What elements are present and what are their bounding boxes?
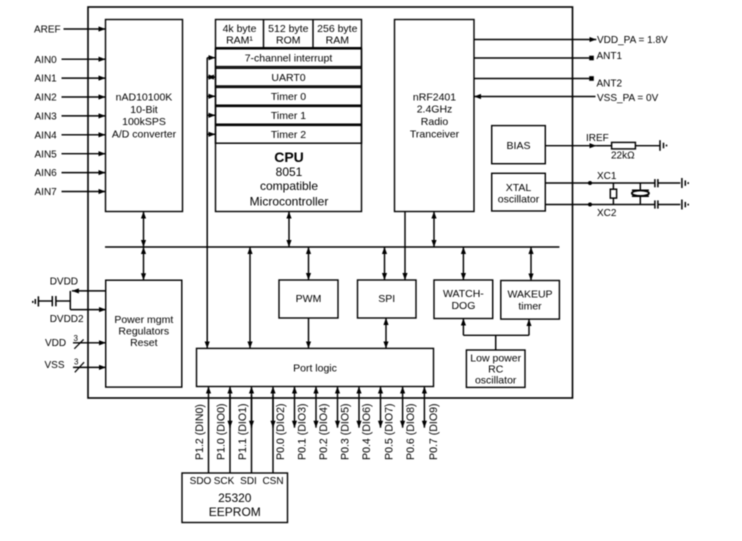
svg-text:SDO: SDO — [190, 476, 212, 487]
wire capacitor to ground — [39, 300, 52, 302]
wire DVDD/DVDD2 vertical joint — [69, 291, 71, 310]
RAM/ROM divider 1 — [263, 20, 265, 48]
svg-text:WAKEUP: WAKEUP — [507, 289, 552, 301]
svg-text:P0.0 (DIO2): P0.0 (DIO2) — [275, 403, 287, 460]
svg-text:Radio: Radio — [421, 116, 449, 128]
wire resistor to ground — [635, 145, 659, 147]
svg-text:DVDD2: DVDD2 — [50, 314, 84, 325]
row Timer 2 box — [216, 125, 362, 143]
wire XC1 from XTAL — [545, 182, 654, 184]
XTAL oscillator block — [492, 173, 546, 211]
ground GND-DVDD (facing left) — [33, 296, 39, 306]
CPU block outline — [216, 20, 362, 212]
nRF2401 radio transceiver block — [395, 20, 475, 212]
row Timer 1 box — [216, 106, 362, 124]
wire VDD in — [73, 342, 106, 344]
WATCH-DOG block — [434, 280, 493, 319]
wire RC oscillator stem — [495, 335, 497, 350]
EEPROM 25320 block — [182, 473, 288, 523]
svg-text:P1.1 (DIO1): P1.1 (DIO1) — [237, 403, 249, 460]
wire SPI to Port logic (bidirectional) — [385, 318, 387, 348]
wire ADC to bus (bidirectional) — [143, 212, 145, 248]
svg-text:Timer 0: Timer 0 — [271, 91, 306, 103]
wire RC oscillator to WATCH-DOG — [462, 319, 464, 336]
svg-text:XC2: XC2 — [597, 208, 617, 219]
svg-text:ANT1: ANT1 — [597, 51, 623, 62]
junction dot XC2 — [588, 203, 592, 207]
VDD bus-width slash — [74, 339, 83, 348]
port pin P0.0 down arrow — [272, 395, 274, 428]
svg-text:AIN1: AIN1 — [35, 74, 58, 85]
port pin P1.0 down arrow — [229, 395, 231, 428]
svg-text:AIN7: AIN7 — [35, 187, 58, 198]
RAM box text — [223, 23, 257, 46]
svg-text:AREF: AREF — [34, 25, 61, 36]
wire bus to PWM (bidirectional) — [308, 247, 310, 280]
svg-text:10-Bit: 10-Bit — [130, 104, 158, 116]
wire RC oscillator to WAKEUP timer — [528, 319, 530, 335]
wire bus to WATCH-DOG (bidirectional) — [462, 247, 464, 280]
svg-text:SCK: SCK — [214, 476, 235, 487]
stub into Timer 1 row — [207, 114, 215, 116]
svg-text:BIAS: BIAS — [507, 140, 531, 152]
Low power RC oscillator block text — [470, 353, 521, 387]
ground GND-XC1 (facing right) — [682, 178, 688, 188]
port pin P0.6 wire — [402, 387, 404, 428]
junction dot XC1 — [588, 181, 592, 185]
row 7-channel interrupt box — [216, 49, 362, 67]
wire VDD_PA out of nRF2401 — [474, 39, 596, 41]
wire AIN5 into ADC — [62, 153, 106, 155]
stub into Timer 0 row — [207, 95, 215, 97]
svg-text:PWM: PWM — [296, 293, 322, 305]
svg-text:UART0: UART0 — [271, 72, 305, 84]
svg-text:VDD_PA = 1.8V: VDD_PA = 1.8V — [597, 35, 668, 46]
port pin P1.2 wire to EEPROM SDO — [208, 387, 210, 474]
svg-text:IREF: IREF — [586, 133, 609, 144]
wire AIN2 into ADC — [62, 96, 106, 98]
wire XC2 cap to ground — [658, 204, 680, 206]
wire RC oscillator horizontal joint — [463, 334, 529, 336]
svg-text:P1.2 (DIN0): P1.2 (DIN0) — [194, 404, 206, 460]
port pin P1.1 down arrow — [251, 395, 253, 428]
ADC block text — [112, 92, 177, 141]
svg-text:P0.6 (DIO8): P0.6 (DIO8) — [405, 403, 417, 460]
outer system boundary box — [88, 7, 573, 398]
svg-text:RAM¹: RAM¹ — [226, 35, 253, 47]
svg-text:DVDD: DVDD — [50, 277, 78, 288]
port pin P0.3 wire — [337, 387, 339, 428]
svg-text:SDI: SDI — [240, 476, 257, 487]
port pin P0.2 wire — [315, 387, 317, 428]
svg-text:Power mgmt: Power mgmt — [114, 314, 173, 326]
svg-text:XC1: XC1 — [597, 171, 617, 182]
svg-text:100kSPS: 100kSPS — [122, 116, 166, 128]
svg-text:VSS: VSS — [45, 360, 65, 371]
wire bus to Power mgmt (bidirectional) — [143, 247, 145, 280]
resistor R-XTAL between XC1 and XC2 — [610, 183, 616, 205]
svg-text:timer: timer — [518, 301, 542, 313]
svg-text:A/D converter: A/D converter — [112, 128, 177, 140]
wire DVDD out — [72, 290, 106, 292]
svg-text:Timer 1: Timer 1 — [271, 110, 306, 122]
ANT1 pad square — [589, 56, 594, 61]
RAM/ROM divider 2 — [312, 20, 314, 48]
WAKEUP timer block — [501, 281, 560, 320]
svg-text:ROM: ROM — [276, 35, 301, 47]
ANT2 pad square — [589, 76, 594, 81]
wire AIN1 into ADC — [62, 77, 106, 79]
svg-text:WATCH-: WATCH- — [443, 288, 484, 300]
row Timer 0 box — [216, 87, 362, 105]
svg-text:7-channel interrupt: 7-channel interrupt — [245, 53, 333, 65]
wire nRF2401 to bus (bidirectional) — [433, 212, 435, 248]
wire VSS in — [73, 366, 106, 368]
EEPROM block text — [209, 491, 261, 519]
svg-text:P0.1 (DIO3): P0.1 (DIO3) — [297, 403, 309, 460]
row UART0 box — [216, 68, 362, 86]
wire XC1 cap to ground — [658, 182, 680, 184]
BIAS block — [492, 126, 546, 164]
ground GND-IREF (facing right) — [660, 140, 667, 151]
wire joint to decoupling capacitor — [56, 300, 70, 302]
svg-text:3: 3 — [74, 358, 79, 367]
port pin P0.7 wire — [423, 387, 425, 428]
svg-text:AIN5: AIN5 — [35, 149, 58, 160]
RAM/ROM header divider bottom line — [216, 47, 362, 49]
VSS bus-width slash — [75, 362, 84, 372]
svg-text:P1.0 (DIO0): P1.0 (DIO0) — [215, 403, 227, 460]
svg-text:25320: 25320 — [218, 491, 252, 505]
svg-text:22kΩ: 22kΩ — [611, 151, 635, 162]
port pin P0.1 wire — [294, 387, 296, 428]
wire ANT1 — [474, 57, 589, 59]
WATCH-DOG block text — [443, 288, 484, 312]
svg-text:DOG: DOG — [451, 300, 475, 312]
CPU block text — [250, 149, 329, 209]
capacitor C-DVDD — [52, 296, 56, 306]
svg-text:CSN: CSN — [262, 476, 283, 487]
svg-text:AIN4: AIN4 — [35, 130, 58, 141]
nRF2401 block text — [410, 92, 460, 141]
interrupt bus vertical wire down to Port logic — [206, 58, 208, 349]
wire XC2 from XTAL — [545, 204, 654, 206]
capacitor C-XC1 — [655, 179, 658, 187]
svg-text:AIN6: AIN6 — [35, 168, 58, 179]
resistor R-IREF 22k — [612, 142, 636, 149]
svg-text:Port logic: Port logic — [293, 363, 337, 375]
svg-text:P0.3 (DIO5): P0.3 (DIO5) — [340, 403, 352, 460]
Port logic block — [197, 348, 434, 386]
A/D converter block U-ADC — [106, 20, 183, 212]
wire IREF from BIAS — [545, 145, 596, 147]
svg-text:P0.7 (DIO9): P0.7 (DIO9) — [428, 403, 440, 460]
svg-text:RAM: RAM — [326, 35, 349, 47]
RAM256 box text — [317, 23, 357, 46]
wire AIN4 into ADC — [62, 134, 106, 136]
SPI block — [358, 280, 417, 318]
port pin P1.1 wire to EEPROM SDI — [251, 387, 253, 474]
svg-text:Microcontroller: Microcontroller — [250, 194, 329, 208]
svg-text:P0.5 (DIO7): P0.5 (DIO7) — [383, 403, 395, 460]
wire AIN7 into ADC — [62, 191, 106, 193]
svg-text:XTAL: XTAL — [506, 182, 532, 194]
wire IREF to resistor — [596, 145, 611, 147]
svg-text:nRF2401: nRF2401 — [413, 92, 456, 104]
PWM block — [279, 280, 338, 318]
wire bus to WAKEUP timer (bidirectional) — [530, 247, 532, 281]
crystal X1 — [632, 183, 649, 205]
svg-text:oscillator: oscillator — [498, 194, 540, 206]
WAKEUP timer block text — [507, 289, 552, 313]
svg-text:compatible: compatible — [260, 179, 318, 193]
wire ANT2 — [474, 78, 589, 80]
svg-text:CPU: CPU — [274, 149, 304, 165]
wire nRF2401 down to SPI — [404, 212, 406, 281]
Low power RC oscillator block — [466, 350, 525, 387]
wire AIN6 into ADC — [62, 172, 106, 174]
svg-text:VSS_PA = 0V: VSS_PA = 0V — [597, 93, 659, 104]
wire DVDD2 in — [70, 309, 106, 311]
wire AREF into ADC — [64, 28, 106, 30]
svg-text:Reset: Reset — [130, 337, 158, 349]
svg-text:AIN3: AIN3 — [35, 112, 58, 123]
svg-text:AIN0: AIN0 — [35, 55, 58, 66]
XTAL block text — [498, 182, 540, 206]
ROM box text — [268, 23, 308, 46]
main horizontal bus — [105, 246, 559, 248]
wire bus to Port logic (bidirectional) — [249, 247, 251, 348]
svg-text:512 byte: 512 byte — [268, 23, 308, 35]
svg-text:P0.2 (DIO4): P0.2 (DIO4) — [318, 403, 330, 460]
wire VSS_PA into nRF2401 — [474, 96, 596, 98]
port pin P0.0 wire to EEPROM CSN — [272, 387, 274, 474]
svg-text:Timer 2: Timer 2 — [271, 129, 306, 141]
svg-text:P0.4 (DIO6): P0.4 (DIO6) — [361, 403, 373, 460]
svg-text:ANT2: ANT2 — [597, 78, 623, 89]
port pin P0.5 wire — [380, 387, 382, 428]
stub into UART0 row (bidirectional) — [207, 76, 215, 78]
svg-text:4k byte: 4k byte — [223, 23, 257, 35]
svg-text:EEPROM: EEPROM — [209, 505, 261, 519]
wire PWM to Port logic — [308, 318, 310, 348]
svg-text:AIN2: AIN2 — [35, 93, 58, 104]
svg-text:8051: 8051 — [276, 165, 303, 179]
svg-text:Regulators: Regulators — [118, 325, 169, 337]
svg-text:2.4GHz: 2.4GHz — [417, 103, 453, 115]
stub into 7-channel interrupt row — [207, 57, 215, 59]
svg-text:Tranceiver: Tranceiver — [410, 128, 460, 140]
svg-text:256 byte: 256 byte — [317, 23, 357, 35]
svg-text:VDD: VDD — [45, 338, 66, 349]
Power mgmt block — [106, 280, 182, 387]
stub into Timer 2 row — [207, 133, 215, 135]
svg-text:3: 3 — [74, 334, 79, 343]
ground GND-XC2 (facing right) — [682, 200, 688, 210]
capacitor C-XC2 — [655, 200, 658, 208]
port pin P1.0 wire to EEPROM SCK — [229, 387, 231, 474]
svg-text:oscillator: oscillator — [475, 374, 517, 386]
svg-text:SPI: SPI — [378, 293, 395, 305]
wire AIN3 into ADC — [62, 115, 106, 117]
wire CPU to bus (bidirectional) — [288, 212, 290, 248]
port pin P0.4 wire — [358, 387, 360, 428]
wire bus to SPI (bidirectional) — [384, 247, 386, 280]
wire AIN0 into ADC — [62, 58, 106, 60]
Power mgmt block text — [114, 314, 173, 349]
svg-text:nAD10100K: nAD10100K — [116, 92, 173, 104]
